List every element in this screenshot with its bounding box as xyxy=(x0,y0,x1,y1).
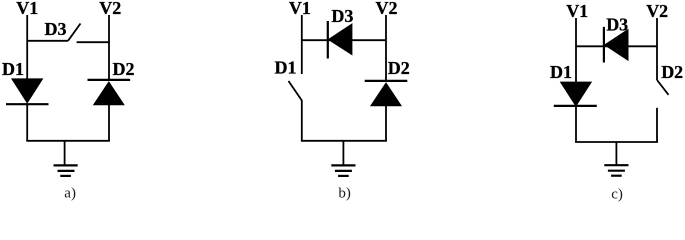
svg-text:D2: D2 xyxy=(661,62,683,82)
wire: top rail left segment (circuit a) xyxy=(27,40,68,42)
wire: bottom rail (circuit a) xyxy=(26,140,110,142)
switch D1 blade (circuit b) xyxy=(289,81,303,101)
svg-text:D2: D2 xyxy=(113,59,135,79)
diode D1 (circuit c) xyxy=(554,82,597,106)
diode D3 (circuit c) xyxy=(604,27,628,63)
svg-text:D3: D3 xyxy=(331,6,353,26)
diode D2 (circuit a) xyxy=(88,80,131,105)
wire: V2 vertical drop (circuit b) xyxy=(385,15,387,81)
wire: V1 vertical drop (circuit c) xyxy=(575,18,577,83)
wire: D1 cathode to bottom rail (circuit a) xyxy=(26,104,28,141)
svg-text:D1: D1 xyxy=(275,58,297,78)
wire: V1 vertical drop (circuit b) xyxy=(301,15,303,74)
wire: D2 anode to bottom rail (circuit b) xyxy=(385,106,387,141)
wire: V2 vertical drop (circuit c) xyxy=(656,18,658,80)
wire: switch bottom to bottom rail (circuit c) xyxy=(656,108,658,142)
svg-text:D3: D3 xyxy=(45,19,67,39)
wire: top rail (circuit b) xyxy=(302,39,386,41)
svg-text:V2: V2 xyxy=(99,0,121,18)
wire: bottom rail (circuit c) xyxy=(575,141,658,143)
svg-text:b): b) xyxy=(338,186,351,202)
wire: bottom rail (circuit b) xyxy=(301,140,387,142)
wire: top rail right segment (circuit a) xyxy=(77,41,109,43)
wire: top rail (circuit c) xyxy=(576,45,657,47)
switch D3 blade (circuit a) xyxy=(68,24,81,41)
diode D3 (circuit b) xyxy=(328,21,352,59)
diode D2 (circuit b) xyxy=(365,81,408,106)
ground (circuit c) xyxy=(604,142,628,176)
switch D2 blade (circuit c) xyxy=(657,80,669,95)
wire: V2 vertical drop (circuit a) xyxy=(108,15,110,80)
wire: switch bottom to bottom rail (circuit b) xyxy=(301,101,303,142)
svg-text:D1: D1 xyxy=(2,59,24,79)
ground (circuit a) xyxy=(54,141,78,176)
wire: D2 anode to bottom rail (circuit a) xyxy=(108,105,110,141)
svg-text:D3: D3 xyxy=(606,15,628,35)
svg-text:D1: D1 xyxy=(550,62,572,82)
wire: D1 cathode to bottom rail (circuit c) xyxy=(575,106,577,142)
svg-text:V1: V1 xyxy=(566,1,588,21)
diode D1 (circuit a) xyxy=(6,79,49,104)
svg-text:a): a) xyxy=(64,185,76,201)
svg-text:c): c) xyxy=(611,186,623,202)
ground (circuit b) xyxy=(331,141,355,176)
svg-text:D2: D2 xyxy=(388,58,410,78)
wire: V1 vertical drop (circuit a) xyxy=(26,15,28,80)
svg-text:V1: V1 xyxy=(289,0,311,18)
